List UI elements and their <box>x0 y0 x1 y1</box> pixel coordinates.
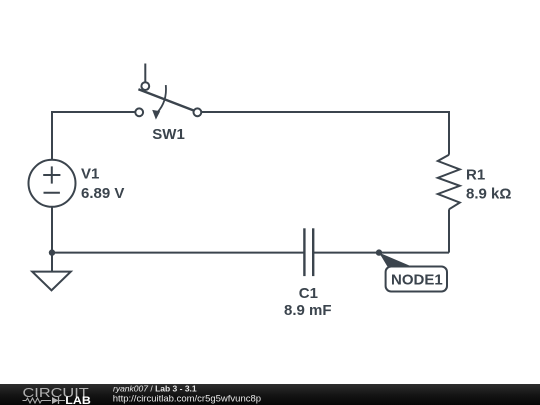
svg-text:ryank007 / Lab 3 - 3.1: ryank007 / Lab 3 - 3.1 <box>113 384 197 394</box>
wire bottom-right segment <box>313 252 449 254</box>
svg-text:C1: C1 <box>299 285 318 302</box>
capacitor C1 <box>304 228 313 276</box>
svg-text:SW1: SW1 <box>152 126 185 143</box>
svg-text:V1: V1 <box>81 166 99 183</box>
NODE1 flag box <box>386 267 447 292</box>
switch SW1 motion arrow <box>157 85 166 112</box>
wire right vertical below R1 <box>448 209 450 252</box>
junction dot NODE1 <box>376 249 382 255</box>
wire switch top stub <box>144 64 146 83</box>
svg-text:http://circuitlab.com/cr5g5wfv: http://circuitlab.com/cr5g5wfvunc8p <box>113 393 261 404</box>
svg-text:8.9 mF: 8.9 mF <box>284 302 332 319</box>
svg-text:NODE1: NODE1 <box>391 271 443 288</box>
junction dot left <box>49 249 55 255</box>
voltage source V1 <box>29 160 76 207</box>
resistor R1 <box>438 155 460 210</box>
wire bottom-left segment <box>52 252 304 254</box>
NODE1 flag pointer <box>379 253 414 268</box>
wire ground stub <box>51 253 53 271</box>
wire top-left segment <box>52 112 135 160</box>
logo diode <box>52 397 59 404</box>
wire top-right segment <box>202 112 449 155</box>
svg-text:R1: R1 <box>466 166 485 183</box>
svg-text:6.89 V: 6.89 V <box>81 185 124 202</box>
ground <box>32 272 71 291</box>
svg-text:LAB: LAB <box>65 395 91 405</box>
logo resistor zigzag <box>23 398 52 403</box>
svg-text:8.9 kΩ: 8.9 kΩ <box>466 185 511 202</box>
switch SW1 arm <box>138 89 194 110</box>
switch SW1 <box>135 82 201 116</box>
wire left vertical below V1 <box>51 207 53 253</box>
